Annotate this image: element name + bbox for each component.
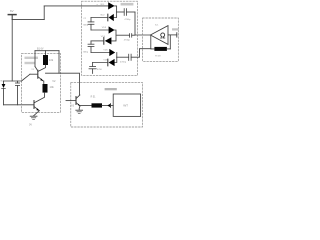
- wire: HV down to meter: [135, 12, 150, 35]
- wire: D2 to left rail: [91, 17, 108, 19]
- transistor Q1: [30, 70, 43, 81]
- wire: Q3 base feed: [66, 100, 76, 102]
- svg-text:B1 6V: B1 6V: [37, 48, 44, 51]
- wire: left rail to D3: [91, 29, 109, 31]
- svg-text:4700p: 4700p: [124, 19, 131, 21]
- svg-text:6V: 6V: [10, 9, 14, 13]
- wire: right rail mid: [111, 30, 116, 41]
- driver dashed box: [71, 83, 143, 127]
- wire: Q3 emitter to ground: [78, 106, 81, 110]
- svg-text:4700p: 4700p: [124, 39, 131, 41]
- wire: drop right to runner: [58, 51, 60, 73]
- svg-text:10k: 10k: [49, 58, 54, 62]
- wire: right rail upper: [114, 6, 117, 18]
- capacitor C2 on left rail: [88, 18, 94, 31]
- wire: R1 to Q1 collector: [38, 65, 45, 71]
- svg-text:10k: 10k: [50, 85, 55, 89]
- wire: bottom rejoin to Q2 base: [4, 104, 34, 106]
- svg-text:680p: 680p: [83, 24, 89, 26]
- label output: [172, 28, 179, 30]
- meter dashed box: [143, 18, 179, 61]
- load box WT: [113, 94, 140, 116]
- wire: left rail down: [11, 15, 13, 81]
- oscillator label line1: [25, 57, 39, 59]
- voltage multiplier dashed box: [82, 1, 138, 75]
- wire: feedback left leg: [151, 35, 155, 49]
- wire: RF to output leg: [167, 48, 170, 50]
- capacitor C4: [89, 63, 96, 74]
- transistor Q3: [76, 95, 80, 106]
- wire: output down branch: [169, 35, 171, 49]
- svg-text:4700: 4700: [97, 69, 103, 71]
- svg-text:V2: V2: [52, 79, 56, 83]
- resistor R3: [92, 103, 103, 107]
- diode D3: [109, 26, 115, 33]
- wire: Q1 base diagonal to left: [22, 74, 31, 81]
- diode VD branch: [2, 81, 6, 105]
- wire: Q2 emitter to ground: [34, 111, 40, 116]
- ground G2: [30, 116, 37, 119]
- svg-text:680p: 680p: [83, 51, 89, 53]
- svg-text:R 1M: R 1M: [155, 56, 160, 58]
- wire: left rail to D5: [91, 52, 110, 54]
- label above WT box: [105, 88, 117, 90]
- diode D2: [108, 14, 114, 21]
- resistor R1: [43, 51, 48, 65]
- svg-text:R 51: R 51: [91, 96, 97, 98]
- diode D5: [109, 49, 115, 56]
- svg-text:0V: 0V: [29, 124, 32, 127]
- wire: emitter node to R3: [80, 105, 92, 107]
- oscillator label line2: [25, 62, 36, 64]
- diode D4: [104, 37, 112, 44]
- wire: runner to Q3: [46, 73, 80, 95]
- transistor Q2: [34, 101, 40, 111]
- mid tap capacitor C8: [117, 34, 135, 38]
- feedback resistor RF: [154, 47, 167, 51]
- wire: top feed to D1: [44, 5, 108, 7]
- wire: D4 to left rail: [91, 40, 104, 42]
- op-amp meter IC1: [150, 26, 168, 45]
- wire: riser: [43, 6, 45, 20]
- wire: R2 to Q2 collector: [34, 93, 44, 103]
- label HV out (neg): [121, 3, 134, 6]
- resistor R2: [43, 84, 48, 93]
- diode D1: [108, 2, 114, 9]
- svg-text:4700p: 4700p: [120, 62, 127, 64]
- output capacitor C6 top: [116, 9, 135, 16]
- diode D6: [108, 59, 115, 66]
- capacitor C1 branch: [15, 81, 19, 105]
- wire: right rail lower: [114, 53, 117, 63]
- wire: D6 to C4: [93, 62, 108, 64]
- wire: R3 to arrow: [102, 105, 107, 107]
- oscillator dashed box: [22, 53, 61, 112]
- power rail +6V symbol: [8, 15, 16, 20]
- wire: op-amp output with terminal: [168, 33, 177, 37]
- wire: Q1 emitter to R2: [43, 81, 45, 84]
- capacitor C3 on left rail: [88, 41, 94, 53]
- node tee at left: [4, 80, 22, 82]
- svg-text:WT: WT: [123, 103, 128, 107]
- supply wire B1: [35, 50, 59, 52]
- output capacitor C7 bottom: [117, 49, 151, 61]
- wire: rail top to oscillator feed: [12, 19, 44, 21]
- ground G3: [76, 110, 83, 113]
- arrow into WT: [107, 104, 113, 108]
- wire: drop to Q1 base: [35, 51, 38, 71]
